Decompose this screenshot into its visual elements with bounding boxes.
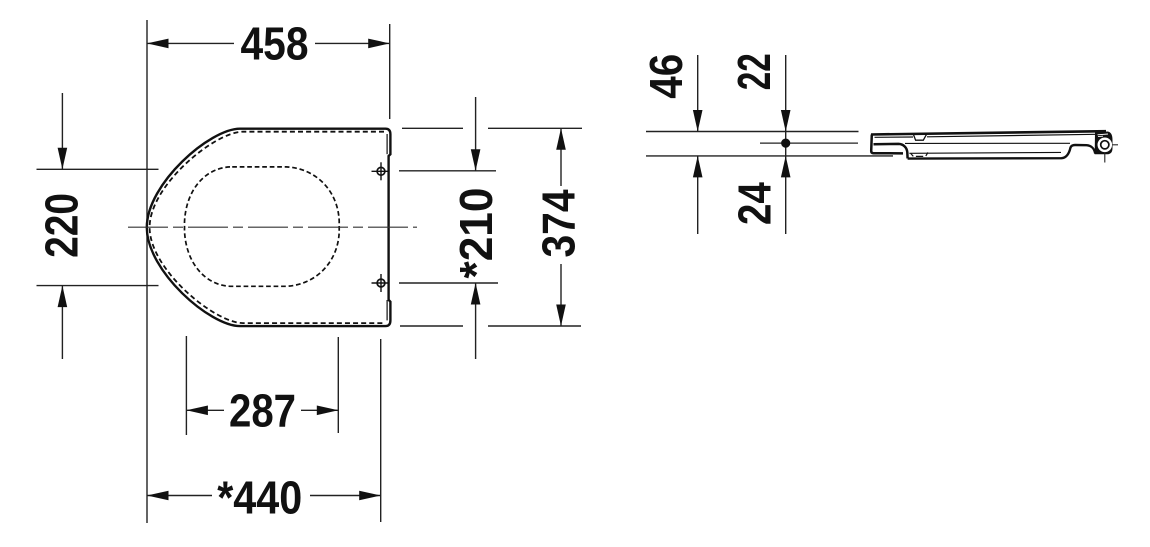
wire: 440 dimension line left (147, 495, 212, 497)
wire: right extension line x=389.7 for 458 (389, 24, 391, 119)
wire: 374 top extension line seg1 (402, 127, 463, 129)
wire: 210 top arrow shaft (475, 97, 477, 171)
wire: 210 bottom arrow shaft (475, 283, 477, 359)
hinge crosshair horizontal (1112, 144, 1118, 146)
profile top edge (thick) (871, 131, 1106, 134)
svg-text:220: 220 (35, 193, 87, 258)
arrow 440 right (359, 491, 381, 501)
arrow 46 up (693, 156, 703, 178)
hinge circle (white punch) (1098, 138, 1113, 153)
wire: 440 right extension line (380, 339, 382, 522)
arrow 22 down (781, 110, 791, 132)
svg-text:22: 22 (728, 53, 780, 90)
profile mid thin line (905, 142, 1070, 144)
wire: side bottom reference line (646, 155, 893, 157)
wire: 287 right extension line (337, 337, 339, 433)
wire: 374 bottom extension line seg1 (400, 325, 463, 327)
wire: 374 dimension line upper (560, 128, 562, 186)
wire: 210 bottom extension line (399, 282, 498, 284)
profile ring upper line + curve down (thick) (874, 144, 908, 159)
node: axis dot (781, 139, 790, 148)
arrow 220 top (58, 148, 68, 170)
wire: 287 left extension line (185, 336, 187, 435)
arrow 210 top (471, 149, 481, 171)
arrow 458 left (147, 39, 169, 49)
wire: 220 top extension line (37, 168, 159, 170)
svg-text:287: 287 (229, 384, 296, 436)
wire: dimension line 458 right segment (315, 42, 390, 44)
hinge hole bottom (372, 274, 390, 292)
wire: side top reference line (646, 131, 859, 133)
wire: 46 arrow shaft top (697, 55, 699, 132)
wire: 287 dimension line right (301, 409, 338, 411)
centerline (dash-dot) (128, 226, 417, 228)
hinge hole top (372, 162, 390, 180)
wire: 220 top arrow shaft (61, 93, 63, 169)
svg-text:374: 374 (532, 189, 584, 257)
arrow 458 right (368, 39, 390, 49)
svg-text:*210: *210 (450, 188, 502, 279)
svg-text:458: 458 (241, 18, 309, 70)
arrow 46 down (693, 110, 703, 132)
seat outline (top view, outer solid) (147, 129, 391, 326)
wire: left extension line x=147 (458/440 common) (146, 20, 148, 523)
wire: 440 dimension line right (310, 495, 381, 497)
wire: 220 bottom arrow shaft (61, 286, 63, 359)
wire: 374 bottom extension line seg2 (488, 325, 581, 327)
arrow 374 top (556, 128, 566, 150)
wire: dimension line 458 left segment (147, 42, 234, 44)
seat inner opening (dashed) (185, 167, 340, 286)
profile front lip (left edge, thick) (871, 135, 903, 154)
arrow 374 bottom (556, 305, 566, 327)
profile lower thin line (909, 151, 1061, 154)
wire: 374 top extension line seg2 (488, 127, 582, 129)
wire: 287 dimension line left (186, 409, 224, 411)
hinge pin circle (1101, 141, 1109, 149)
wire: side axis line (760, 142, 858, 144)
svg-text:24: 24 (729, 182, 781, 225)
wire: 210 top extension line (399, 170, 496, 172)
svg-text:*440: *440 (217, 471, 302, 523)
seat hinge step inner lines (386, 134, 388, 154)
arrow 24 up (781, 156, 791, 178)
seat hidden edge (dashed just inside outline) (150, 132, 384, 323)
wire: 46 arrow shaft bottom (697, 156, 699, 234)
profile bottom recess trapezoid (911, 152, 928, 156)
arrow 440 left (147, 491, 169, 501)
arrow 220 bottom (58, 286, 68, 308)
wire: 22-24 arrow shaft (785, 55, 787, 234)
svg-text:46: 46 (640, 54, 692, 99)
hinge block (dark) (1095, 132, 1112, 154)
hinge serration marks (1098, 134, 1109, 137)
hinge crosshair vertical (1104, 153, 1106, 163)
arrow 210 bottom (471, 283, 481, 305)
profile under-top thin line (875, 134, 1096, 137)
arrow 287 left (186, 406, 208, 416)
profile top notch (914, 135, 927, 141)
profile bottom edge with step up to hinge (thick) (908, 145, 1096, 159)
wire: 374 dimension line lower (560, 264, 562, 326)
arrow 287 right (317, 406, 339, 416)
wire: 220 bottom extension line (37, 285, 159, 287)
